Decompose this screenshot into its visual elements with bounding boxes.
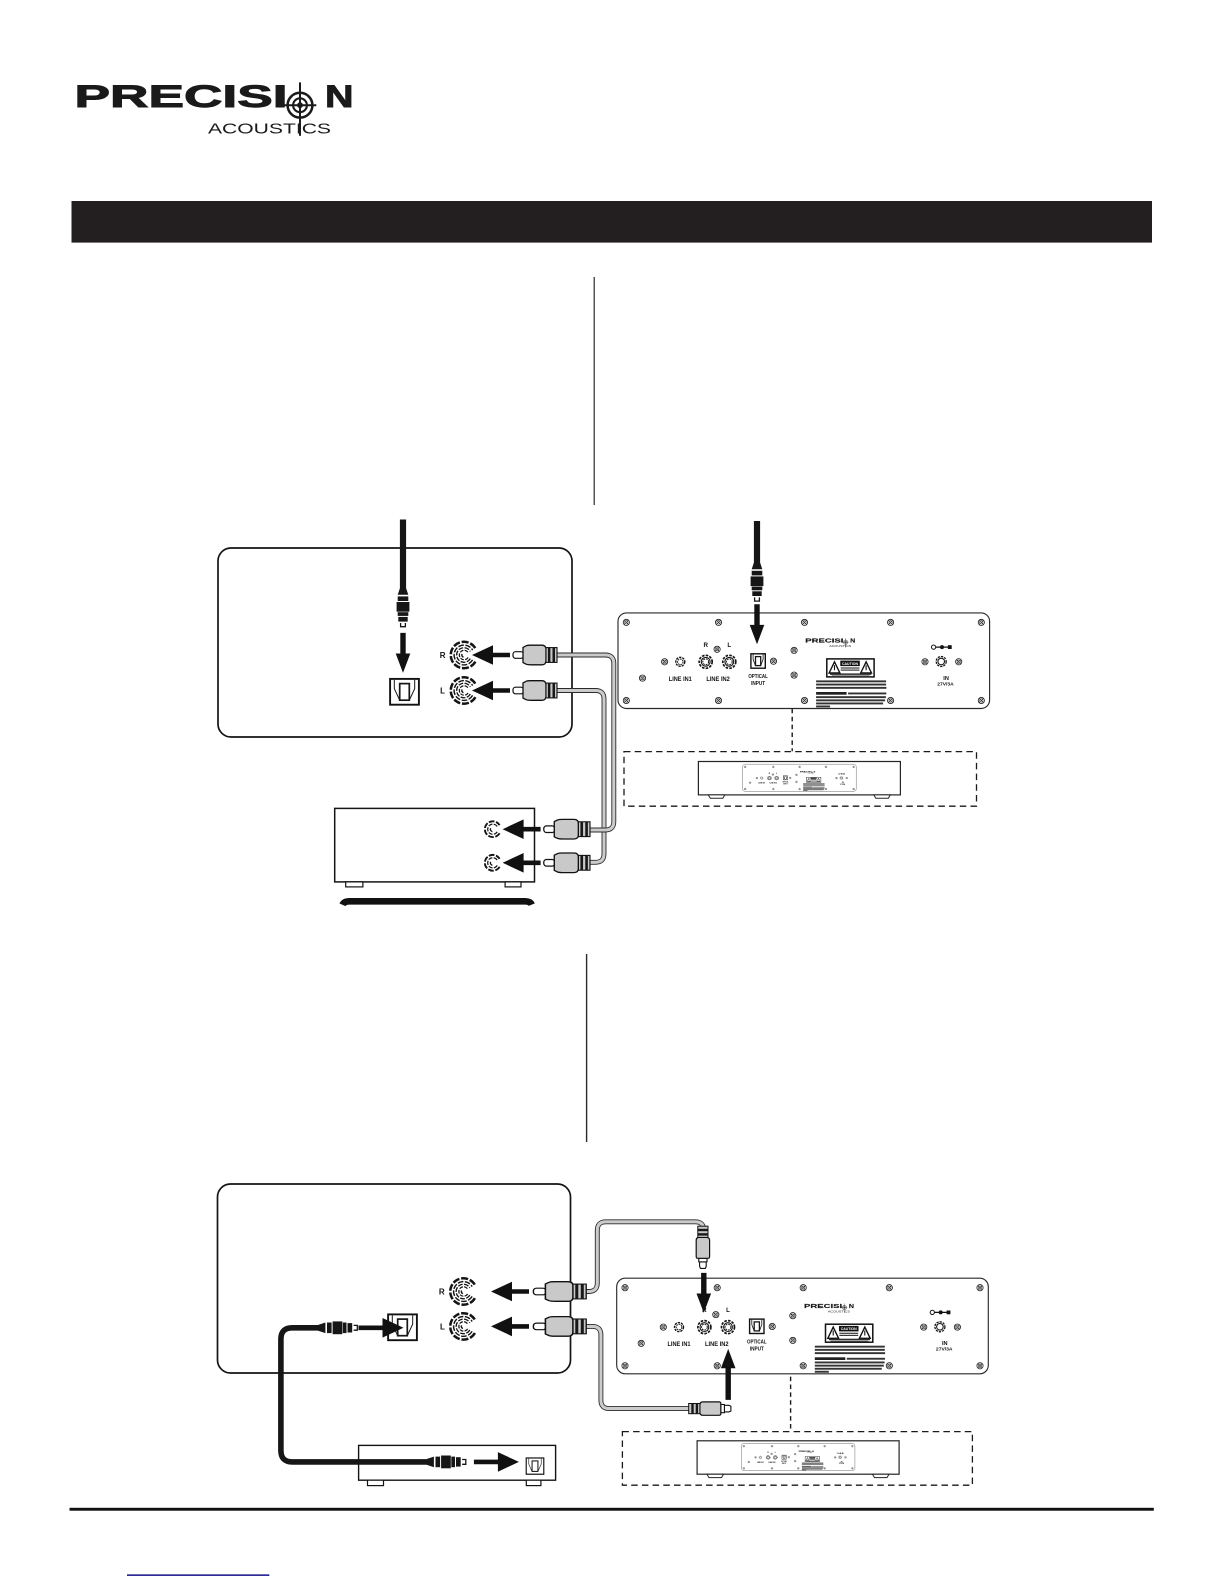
svg-text:L: L <box>440 1322 445 1331</box>
arrow into amp bottom jack <box>503 853 541 873</box>
footer rule <box>70 1508 1154 1511</box>
section title bar <box>72 201 1153 243</box>
amp right foot <box>505 882 521 887</box>
mini subwoofer in callout (diagram 2) <box>697 1441 899 1478</box>
vertical RCA plug into LINE IN2 R <box>696 1226 709 1268</box>
insertion arrow up into LINE IN2 L <box>721 1349 736 1400</box>
optical connector at TV2 port <box>318 1321 357 1334</box>
insertion arrow down into LINE IN2 R <box>697 1273 712 1313</box>
dashed callout line (diagram 1) <box>791 709 793 751</box>
subwoofer rear panel (diagram 1) <box>618 613 990 709</box>
shelf edge below amp <box>343 901 532 905</box>
R audio cable (outer route, TV1 R jack to amp top input) <box>556 655 614 830</box>
arrow into TV1 L jack <box>472 681 510 701</box>
arrow into TV1 R jack <box>472 645 510 665</box>
optical cable into TV (diagram 1) <box>400 520 406 589</box>
RCA plug at TV1 R jack <box>513 645 557 665</box>
insertion arrow right into TV2 optical port <box>359 1318 404 1338</box>
DVD player box (diagram 2) <box>359 1445 556 1480</box>
insertion arrow right into DVD optical port <box>474 1452 519 1472</box>
L audio cable (inner route, TV1 L jack to amp bottom input) <box>556 691 604 863</box>
optical connector at DVD <box>427 1456 466 1469</box>
optical cable into subwoofer (diagram 1) <box>754 521 760 563</box>
TV1 R jack <box>451 642 476 668</box>
svg-text:R: R <box>440 651 446 660</box>
amp top RCA jack <box>485 821 500 837</box>
amp bottom RCA jack <box>485 855 500 871</box>
svg-text:L: L <box>440 687 445 696</box>
optical cable from DVD to TV2 <box>281 1328 428 1462</box>
insertion arrow down to TV optical port <box>396 633 411 673</box>
RCA plug at amp top jack <box>544 819 590 839</box>
optical connector at subwoofer <box>751 562 764 601</box>
amp left foot <box>346 882 363 887</box>
RCA plug at TV2 L jack <box>533 1317 586 1337</box>
mini subwoofer in callout (diagram 1) <box>698 762 900 799</box>
R audio cable (TV2 R jack up and over to subwoofer LINE IN2 R) <box>577 1222 704 1292</box>
RCA plug at amp bottom jack <box>544 853 590 873</box>
section divider line 1 <box>593 277 595 505</box>
dashed callout line (diagram 2) <box>790 1377 792 1432</box>
RCA plug at TV2 R jack <box>533 1282 586 1302</box>
subwoofer rear panel (diagram 2) <box>617 1278 989 1374</box>
TV optical port (diagram 1) <box>390 679 419 705</box>
section divider line 2 <box>586 954 588 1142</box>
amplifier box (diagram 1) <box>335 808 535 882</box>
dashed callout box (diagram 2) <box>622 1432 972 1486</box>
footer link underline <box>127 1574 269 1576</box>
arrow into TV2 R jack <box>491 1282 529 1302</box>
TV back panel box (diagram 2) <box>218 1184 571 1373</box>
L audio cable (TV2 L jack down and right to subwoofer LINE IN2 L) <box>577 1326 690 1408</box>
DVD left foot <box>368 1480 384 1485</box>
svg-text:R: R <box>439 1287 445 1296</box>
DVD optical port <box>526 1458 544 1474</box>
insertion arrow down to subwoofer optical input <box>750 604 765 644</box>
page logo <box>75 78 354 138</box>
TV2 R jack <box>450 1278 475 1304</box>
optical connector at TV (diagram 1) <box>397 588 410 627</box>
TV back panel box (diagram 1) <box>218 548 572 737</box>
DVD right foot <box>526 1480 541 1485</box>
TV2 L jack <box>450 1313 475 1339</box>
RCA plug at TV1 L jack <box>513 681 557 701</box>
dashed callout box (diagram 1) <box>624 752 977 807</box>
TV2 optical port <box>388 1314 417 1340</box>
TV1 L jack <box>451 677 476 703</box>
arrow into TV2 L jack <box>491 1317 529 1337</box>
horizontal RCA plug below panel <box>689 1402 731 1415</box>
arrow into amp top jack <box>503 819 541 839</box>
